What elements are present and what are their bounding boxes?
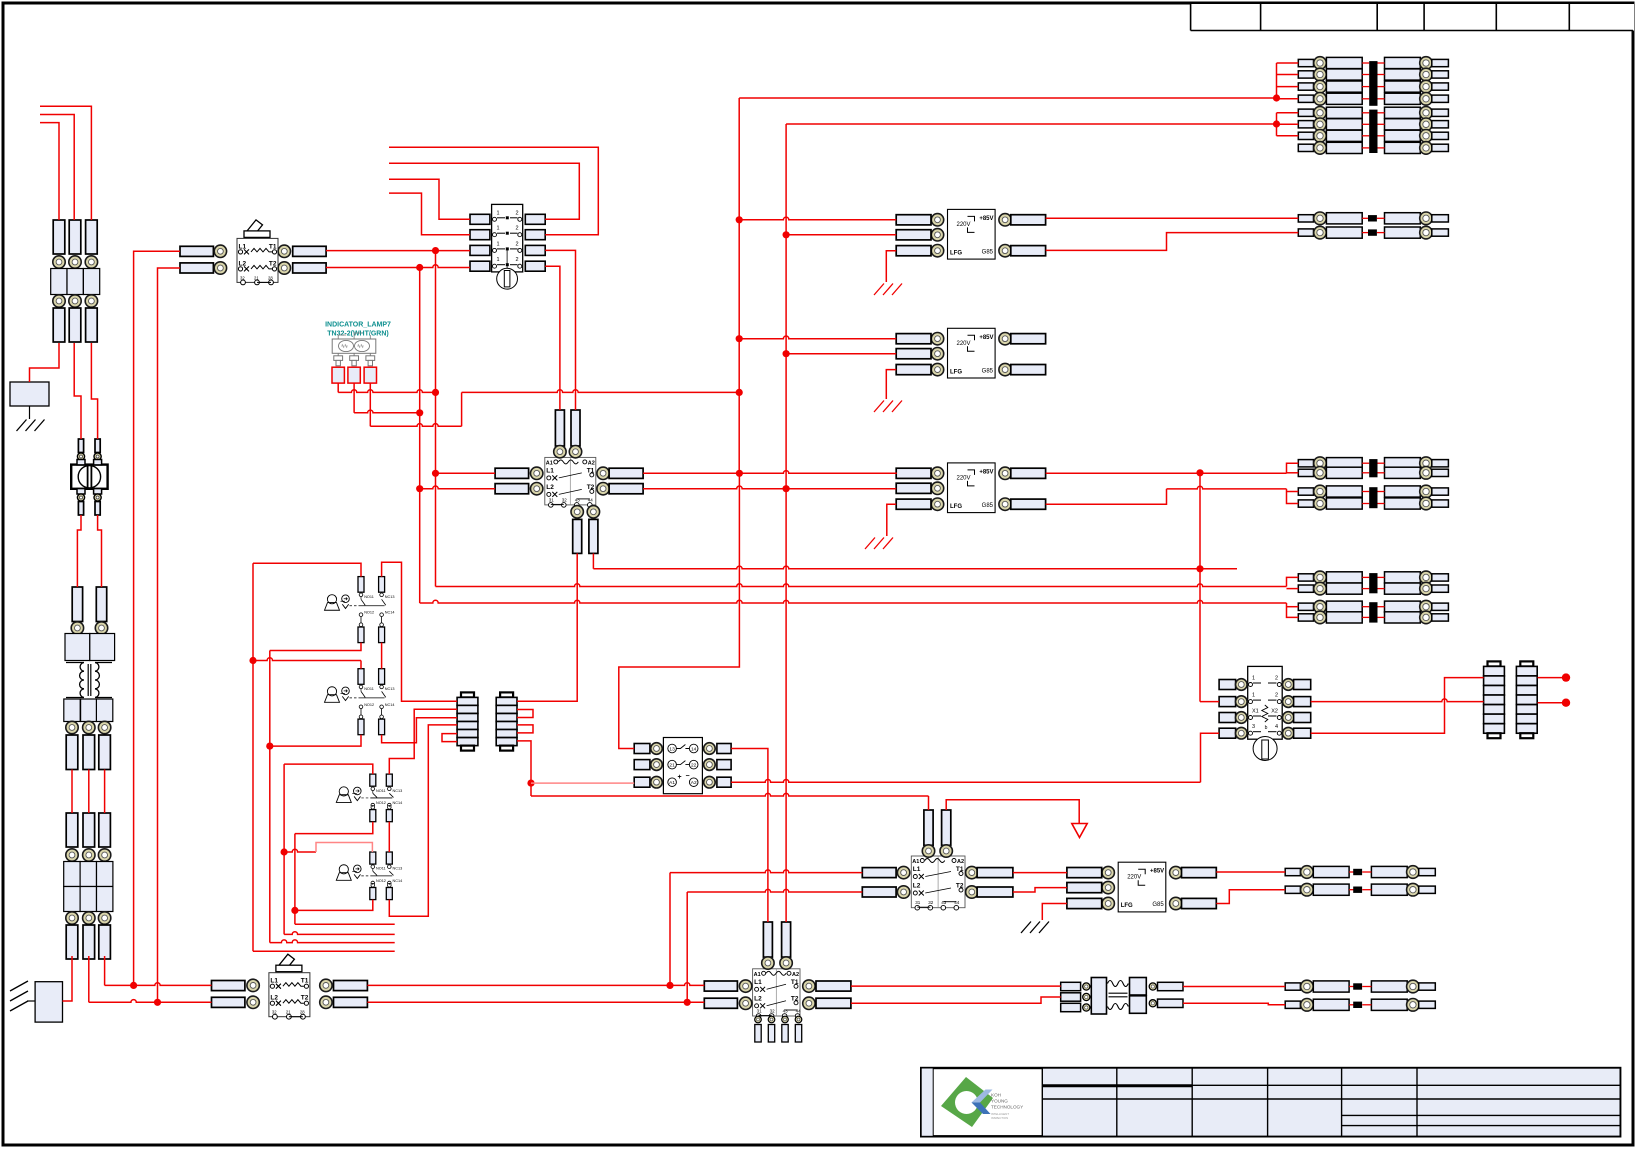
surge filter box Z1 bbox=[10, 382, 49, 406]
svg-text:A1: A1 bbox=[912, 859, 919, 865]
ground (top-left) bbox=[17, 420, 45, 432]
svg-text:NO11: NO11 bbox=[364, 687, 374, 691]
terminal block array TB2 (right, 2 rows) bbox=[1298, 212, 1448, 239]
svg-text:NO11: NO11 bbox=[376, 789, 386, 793]
wire V8 to KS3 NO11 bbox=[284, 764, 373, 774]
wire X1 row2 to J3 bbox=[1311, 699, 1484, 702]
wire riser to CB1 L1 bbox=[134, 251, 180, 985]
svg-text:2: 2 bbox=[515, 257, 518, 263]
svg-text:L2: L2 bbox=[754, 995, 762, 1002]
svg-text:43: 43 bbox=[575, 497, 581, 502]
junction PS1-L1 bbox=[736, 216, 743, 223]
ground PS1 (red) bbox=[874, 284, 902, 296]
wire lamp1 to V1 bbox=[338, 383, 435, 392]
wire K1 aux44 bus bbox=[593, 553, 1237, 568]
junction feeder A bbox=[1273, 94, 1280, 101]
svg-text:1: 1 bbox=[1252, 676, 1255, 682]
wire T2 out1 to TB6 bbox=[1183, 986, 1285, 988]
wire J2 jumper rows4-5 bbox=[517, 725, 533, 733]
svg-text:1: 1 bbox=[497, 210, 500, 216]
contactor K3 (right-middle) bbox=[862, 810, 1013, 910]
junction V6/KS2 bbox=[249, 657, 256, 664]
wire T1 sec 1 to F2 bbox=[71, 770, 73, 814]
wire S1 row2R loop bbox=[389, 147, 598, 234]
svg-text:1: 1 bbox=[497, 226, 500, 232]
svg-text:A2: A2 bbox=[588, 460, 595, 466]
Koh Young Technology logo bbox=[941, 1077, 1023, 1127]
bus wire N2 (y=1002) to CB2 L2 bbox=[89, 1000, 212, 1003]
wire F2 out3 down bbox=[104, 956, 106, 985]
svg-text:T1: T1 bbox=[301, 978, 309, 985]
terminal block array TB6 (bottom-right, 2 rows) bbox=[1285, 980, 1435, 1011]
svg-text:220V: 220V bbox=[1127, 875, 1141, 881]
power supply PS1 (220V/+85V) bbox=[896, 209, 1045, 259]
wire V6 to KS2 NO11 bbox=[253, 658, 361, 669]
wire V8 to KS4 NO11 bbox=[284, 843, 372, 853]
wire feed-in L3 (top-left) bbox=[40, 123, 59, 220]
wire feeder B to TB1 bbox=[786, 113, 1298, 136]
svg-text:2: 2 bbox=[1275, 676, 1278, 682]
wire PS3 L1 bbox=[895, 472, 898, 474]
wire PS4 LFG to ground bbox=[1042, 904, 1067, 921]
junction lamp2/V2 bbox=[416, 409, 423, 416]
svg-text:L1: L1 bbox=[913, 866, 921, 873]
wire KS1 NO12 out bbox=[270, 643, 361, 651]
contactor K4 (bottom-middle) bbox=[704, 922, 851, 1042]
wire Z1 to ground bbox=[29, 406, 31, 419]
key switch KS3 bbox=[336, 774, 402, 822]
wire feeder A to TB1 bbox=[739, 63, 1298, 99]
junction K1-T2/V5 bbox=[783, 485, 790, 492]
svg-text:NC13: NC13 bbox=[385, 595, 395, 599]
ground (bottom-left) bbox=[10, 981, 28, 1011]
wire F1 to Z1 bbox=[30, 343, 60, 382]
svg-text:22: 22 bbox=[691, 763, 697, 769]
wire CB1 T1 to S1 row3 bbox=[326, 250, 470, 252]
circuit breaker CB1 (top-left) bbox=[180, 220, 326, 285]
wire vertical V2 (T2 net) bbox=[419, 268, 421, 604]
wire V2 branch to TB4-B bbox=[420, 600, 1287, 603]
svg-text:−: − bbox=[685, 773, 689, 780]
wire PS4 G85 to TB5 bbox=[1216, 890, 1285, 904]
junction aux44/X1 feed bbox=[1196, 565, 1203, 572]
wire S1 row1R loop bbox=[389, 163, 579, 219]
wire PS2 L1 bbox=[739, 336, 896, 339]
wire J2 pin6 to K3 A1 bbox=[517, 741, 929, 810]
wire CB2 T2 bus bbox=[367, 1001, 704, 1003]
svg-text:LFG: LFG bbox=[950, 250, 962, 256]
svg-text:3: 3 bbox=[1252, 724, 1255, 730]
line filter transformer T2 (bottom) bbox=[1061, 978, 1183, 1015]
svg-text:+85V: +85V bbox=[979, 469, 993, 475]
svg-text:TECHNOLOGY: TECHNOLOGY bbox=[991, 1105, 1023, 1110]
svg-text:14: 14 bbox=[691, 747, 697, 753]
terminal block array TB5 (right, 2 rows) bbox=[1285, 866, 1435, 896]
junction PS1-L2 bbox=[783, 231, 790, 238]
wire J2 jumper rows2-3 bbox=[517, 710, 533, 718]
svg-text:NO11: NO11 bbox=[364, 595, 374, 599]
junction PS2-L2 bbox=[783, 350, 790, 357]
wire relay A1 left bbox=[531, 782, 634, 784]
svg-text:NC13: NC13 bbox=[393, 789, 403, 793]
svg-text:T2: T2 bbox=[269, 260, 277, 267]
svg-text:G85: G85 bbox=[982, 249, 994, 255]
svg-text:LFG: LFG bbox=[950, 504, 962, 510]
terminal dot out1 bbox=[1562, 673, 1570, 681]
svg-text:+: + bbox=[677, 774, 681, 781]
svg-text:INSPECTION: INSPECTION bbox=[991, 1116, 1008, 1120]
wire K1 aux43 to J2 bbox=[517, 553, 577, 701]
wire KS4 NC14 to J1 bbox=[389, 725, 457, 916]
svg-text:L1: L1 bbox=[239, 243, 247, 250]
wire net66 relay13 bbox=[619, 473, 740, 748]
ground PS3 (red) bbox=[865, 538, 893, 550]
wire PS1 G85 to TB2 bbox=[1046, 233, 1299, 251]
svg-text:2: 2 bbox=[515, 241, 518, 247]
wire PS3 +85V to TB3 bbox=[1046, 463, 1299, 473]
wire tap to K3 L2 bbox=[687, 889, 862, 1002]
svg-text:NC14: NC14 bbox=[393, 879, 403, 883]
svg-text:21: 21 bbox=[669, 763, 675, 769]
wire F2 out2 down bbox=[88, 956, 90, 1002]
wire KS2 NC14 to J1 bbox=[382, 718, 458, 743]
open arrow terminator (A2 net) bbox=[1072, 824, 1087, 838]
wire PS1 +85V to TB2 bbox=[1046, 217, 1299, 219]
svg-text:43: 43 bbox=[941, 900, 947, 905]
wire S1 row3R to K1 A2 bbox=[545, 250, 575, 410]
svg-text:L2: L2 bbox=[913, 883, 921, 890]
svg-text:NO12: NO12 bbox=[376, 801, 386, 805]
svg-text:NC13: NC13 bbox=[385, 687, 395, 691]
wire PS2 LFG to ground bbox=[886, 370, 896, 399]
svg-text:A1: A1 bbox=[669, 780, 675, 786]
fuse block F2 (3-pole, lower-left) bbox=[64, 813, 113, 959]
power supply PS2 (220V/+85V) bbox=[896, 328, 1045, 378]
connector stack J2 bbox=[496, 692, 517, 750]
svg-text:NO12: NO12 bbox=[364, 611, 374, 615]
svg-text:L2: L2 bbox=[270, 995, 278, 1002]
wire relay A2 to X1 row4 bbox=[731, 733, 1219, 782]
wire vertical V1 (T1 net) bbox=[435, 251, 437, 587]
svg-text:+85V: +85V bbox=[1150, 869, 1164, 875]
wire V1 branch to TB4-A bbox=[436, 584, 1287, 587]
wire KS bus V6 bbox=[253, 563, 395, 951]
svg-text:L1: L1 bbox=[546, 467, 554, 474]
wire J1 bottom jumper bbox=[442, 734, 457, 742]
wire PS2 L2 bbox=[786, 353, 896, 355]
wire PS3 LFG to ground bbox=[887, 504, 896, 536]
svg-text:+85V: +85V bbox=[979, 335, 993, 341]
wire V6 to KS1 NO11 bbox=[253, 563, 361, 576]
wire K1 T1 to PS3 bbox=[643, 471, 896, 474]
svg-text:A2: A2 bbox=[691, 780, 697, 786]
svg-text:1: 1 bbox=[497, 241, 500, 247]
svg-text:NC14: NC14 bbox=[385, 611, 395, 615]
svg-text:LFG: LFG bbox=[950, 369, 962, 375]
wire X1 row4 to J3 bbox=[1311, 678, 1484, 734]
wire CB2 T1 bus bbox=[367, 983, 704, 986]
wire V2 to K1 L2 bbox=[420, 486, 495, 489]
connector stack J4 bbox=[1516, 661, 1537, 738]
bus wire N1 (y=985) to CB2 L1 bbox=[105, 983, 212, 986]
junction CB2-T1 tap bbox=[666, 982, 673, 989]
noise filter NF1 bbox=[71, 439, 107, 515]
svg-text:31: 31 bbox=[915, 900, 921, 905]
wire S1 row2L loop bbox=[389, 193, 470, 235]
wire KS3 NC14 to KS4 NC13 bbox=[388, 822, 390, 852]
circuit breaker CB2 (bottom-left) bbox=[212, 954, 368, 1019]
wire KS3 NO12 out bbox=[295, 822, 373, 834]
wire PS1 L1 bbox=[739, 217, 896, 220]
svg-text:2: 2 bbox=[1275, 693, 1278, 699]
svg-text:G85: G85 bbox=[1152, 902, 1164, 908]
svg-text:32: 32 bbox=[928, 900, 934, 905]
junction lamp1/V1 bbox=[432, 389, 439, 396]
svg-text:b: b bbox=[1265, 725, 1268, 731]
wire J4 out1 bbox=[1538, 677, 1562, 679]
svg-text:TN32-2(WHT/GRN): TN32-2(WHT/GRN) bbox=[327, 331, 388, 338]
svg-text:X1: X1 bbox=[1252, 709, 1259, 715]
indicator lamp LAMP7 TN32-2(WHT/GRN) bbox=[325, 322, 391, 384]
svg-text:220V: 220V bbox=[957, 222, 971, 228]
rotary cam switch S1 (4-pole) bbox=[470, 204, 545, 289]
wire tap to K3 L1 bbox=[670, 870, 862, 985]
junction CB1-T1/V1 bbox=[432, 247, 439, 254]
svg-text:A2: A2 bbox=[792, 972, 799, 978]
svg-text:1: 1 bbox=[497, 257, 500, 263]
wire T1 sec 3 to F2 bbox=[104, 770, 106, 814]
svg-text:4: 4 bbox=[1275, 724, 1278, 730]
svg-text:31: 31 bbox=[757, 1009, 763, 1014]
junction V8/KS4 bbox=[281, 848, 288, 855]
wire relay 14 to K4 A1 bbox=[731, 749, 768, 923]
wire TB4-A fork bbox=[1287, 577, 1299, 588]
fuse block F1 (3-pole, top-left) bbox=[51, 220, 100, 342]
svg-text:L1: L1 bbox=[270, 978, 278, 985]
relay X2 (13-14/21-22/A1-A2) bbox=[634, 738, 731, 794]
ground PS2 (red) bbox=[874, 401, 902, 413]
wire K3 T2 to PS4 bbox=[1013, 888, 1067, 892]
wire NF1 to T1 primary b bbox=[98, 515, 102, 587]
svg-text:NO12: NO12 bbox=[376, 879, 386, 883]
wire V1 to K1 L1 bbox=[436, 472, 496, 474]
svg-text:44: 44 bbox=[588, 497, 594, 502]
svg-text:220V: 220V bbox=[957, 475, 971, 481]
wire feed-in L1 (top-left) bbox=[40, 106, 91, 220]
power supply PS4 (220V/+85V) bbox=[1067, 862, 1216, 912]
wire K3 T1 to PS4 bbox=[1013, 872, 1067, 874]
wire PS1 LFG to ground bbox=[886, 251, 896, 282]
junction K1-T1/V4 bbox=[736, 470, 743, 477]
svg-text:32: 32 bbox=[562, 497, 568, 502]
svg-text:LFG: LFG bbox=[1121, 903, 1133, 909]
wire feed-in L2 (top-left) bbox=[40, 115, 74, 221]
svg-text:31: 31 bbox=[549, 497, 555, 502]
svg-text:2: 2 bbox=[515, 210, 518, 216]
surge filter box Z2 bbox=[35, 982, 62, 1022]
connector stack J1 bbox=[457, 692, 478, 750]
terminal block array TB4 (right, 2x2 rows) bbox=[1298, 571, 1448, 624]
svg-text:L2: L2 bbox=[239, 260, 247, 267]
svg-text:G85: G85 bbox=[982, 503, 994, 509]
contactor K1 (center) bbox=[495, 410, 643, 553]
title header strip table bbox=[1191, 4, 1634, 31]
wire KS bus V9 bbox=[295, 834, 395, 925]
svg-text:G85: G85 bbox=[982, 368, 994, 374]
svg-text:A1: A1 bbox=[546, 460, 553, 466]
wire KS2 NO12 out bbox=[270, 735, 361, 746]
svg-text:L1: L1 bbox=[754, 979, 762, 986]
svg-text:44: 44 bbox=[796, 1009, 802, 1014]
wire X1 feeder vertical bbox=[1200, 473, 1219, 702]
wire KS4 NO12 out bbox=[295, 900, 373, 911]
wire F1 to NF1 pin2 bbox=[91, 343, 97, 439]
wire vertical V5 (feeder B) bbox=[785, 124, 787, 922]
wire F2 out1 to Z2 bbox=[63, 956, 73, 1001]
wire F1 to NF1 pin1 bbox=[74, 343, 81, 439]
wire K3 A2 to arrow bbox=[946, 800, 1079, 823]
svg-text:YOUNG: YOUNG bbox=[991, 1099, 1008, 1104]
svg-text:32: 32 bbox=[770, 1009, 776, 1014]
terminal block array TB3 (right, 2x2 rows) bbox=[1298, 457, 1448, 510]
wire vertical V4 (feeder A) bbox=[738, 98, 740, 473]
junction K1-L2/V2 bbox=[416, 485, 423, 492]
svg-text:A2: A2 bbox=[957, 859, 964, 865]
svg-text:2: 2 bbox=[515, 226, 518, 232]
wire PS4 +85V to TB5 bbox=[1216, 871, 1285, 873]
wire lamp2 to V2 bbox=[354, 383, 420, 413]
wire T2 out2 to TB6 bbox=[1183, 1003, 1285, 1005]
wire lamp3 to V3 bbox=[370, 383, 739, 426]
svg-text:T2: T2 bbox=[301, 995, 309, 1002]
svg-text:43: 43 bbox=[783, 1009, 789, 1014]
power supply PS3 (220V/+85V) bbox=[896, 463, 1045, 513]
wire riser to CB1 L2 bbox=[158, 268, 181, 1002]
svg-text:L2: L2 bbox=[546, 484, 554, 491]
terminal dot out2 bbox=[1562, 699, 1570, 707]
transformer T1 bbox=[64, 587, 115, 770]
junction N2/CB1 riser bbox=[154, 999, 161, 1006]
wire KS3 NC13 to J1 bbox=[389, 709, 457, 774]
wire T1 sec 2 to F2 bbox=[88, 770, 90, 814]
junction feeder B bbox=[1273, 120, 1280, 127]
key switch KS4 bbox=[336, 852, 402, 900]
wire KS1 NC14 to KS2 NC13 bbox=[381, 643, 383, 669]
junction N1/CB1 riser bbox=[130, 982, 137, 989]
wire K1 T2 to PS3 bbox=[643, 486, 896, 489]
wire KS1 NC13 feed bbox=[382, 562, 458, 701]
wire PS1 L2 bbox=[786, 234, 896, 236]
svg-text:NO11: NO11 bbox=[376, 867, 386, 871]
junction CB2-T2 tap bbox=[684, 999, 691, 1006]
ground PS4 (black) bbox=[1021, 922, 1049, 934]
junction lamp3/V3 bbox=[736, 389, 743, 396]
junction PS3/X1 feed bbox=[1196, 469, 1203, 476]
svg-text:NC13: NC13 bbox=[393, 867, 403, 871]
wire KS bus V8 bbox=[284, 764, 395, 934]
connector stack J3 bbox=[1484, 661, 1505, 738]
svg-text:X2: X2 bbox=[1271, 709, 1278, 715]
svg-text:220V: 220V bbox=[957, 341, 971, 347]
wire CB1 T2 to S1 row4 bbox=[326, 265, 470, 268]
wire S1 row4R to K1 A1 bbox=[545, 266, 560, 410]
junction V9/KS4 bbox=[291, 907, 298, 914]
title block table bbox=[921, 1068, 1620, 1136]
svg-text:13: 13 bbox=[669, 747, 675, 753]
svg-text:1: 1 bbox=[1252, 693, 1255, 699]
wire J4 out2 bbox=[1538, 702, 1562, 704]
junction K1-L1/V1 bbox=[432, 470, 439, 477]
terminal block array TB1 (top-right, 8 rows) bbox=[1298, 57, 1448, 155]
wire K4 T1 to T2 filter bbox=[851, 985, 1061, 987]
wire TB4-B fork bbox=[1287, 603, 1299, 617]
svg-text:NC14: NC14 bbox=[385, 703, 395, 707]
wire K4 T2 to T2 filter bbox=[851, 997, 1061, 1003]
svg-text:KOH: KOH bbox=[991, 1093, 1001, 1098]
wire Z2 to ground bbox=[27, 1000, 35, 1002]
wire PS3 G85 to TB3 bbox=[1046, 486, 1299, 504]
svg-text:NO12: NO12 bbox=[364, 703, 374, 707]
rotary switch X1 (right side) bbox=[1219, 666, 1311, 760]
key switch KS1 bbox=[325, 577, 395, 643]
junction J2/relay A1 bbox=[527, 780, 534, 787]
wire KS bus V7 bbox=[270, 651, 395, 943]
wire NF1 to T1 primary a bbox=[77, 515, 81, 587]
svg-text:NC14: NC14 bbox=[393, 801, 403, 805]
svg-text:44: 44 bbox=[954, 900, 960, 905]
svg-text:T1: T1 bbox=[269, 243, 277, 250]
svg-text:A1: A1 bbox=[754, 972, 761, 978]
junction CB1-T2/V2 bbox=[416, 264, 423, 271]
junction V7/KS2 bbox=[266, 743, 273, 750]
key switch KS2 bbox=[325, 669, 395, 735]
svg-text:INDICATOR_LAMP7: INDICATOR_LAMP7 bbox=[325, 322, 391, 329]
wire S1 row1L loop bbox=[389, 179, 470, 219]
junction PS2-L1 bbox=[736, 335, 743, 342]
svg-text:+85V: +85V bbox=[979, 216, 993, 222]
